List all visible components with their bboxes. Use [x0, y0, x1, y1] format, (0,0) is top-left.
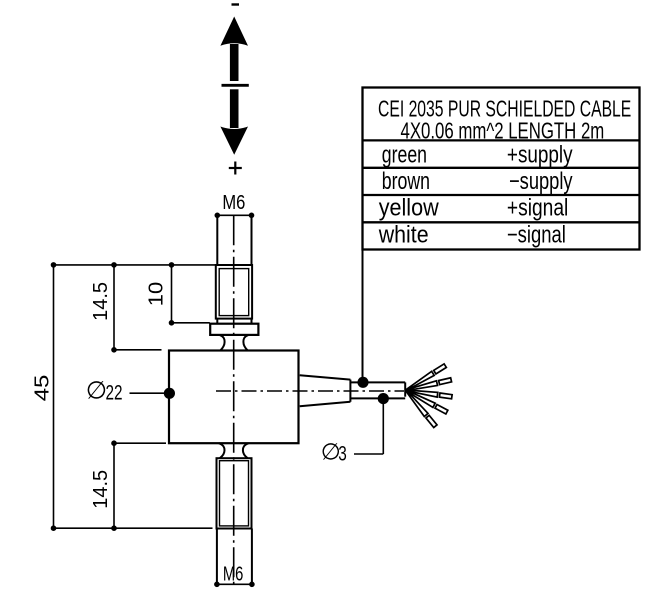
svg-text:14.5: 14.5 — [90, 470, 112, 509]
svg-text:14.5: 14.5 — [90, 282, 112, 321]
svg-text:3: 3 — [338, 441, 347, 465]
svg-text:brown: brown — [382, 169, 430, 195]
svg-text:−signal: −signal — [507, 221, 566, 248]
svg-text:white: white — [378, 220, 429, 247]
svg-text:M6: M6 — [223, 562, 243, 585]
svg-text:45: 45 — [30, 375, 53, 402]
svg-text:+supply: +supply — [507, 140, 573, 168]
svg-text:−supply: −supply — [509, 168, 573, 195]
svg-text:∅: ∅ — [86, 378, 107, 405]
svg-text:green: green — [382, 142, 427, 168]
svg-text:+signal: +signal — [507, 193, 568, 221]
svg-text:M6: M6 — [222, 190, 245, 213]
svg-text:4X0.06 mm^2 LENGTH 2m: 4X0.06 mm^2 LENGTH 2m — [401, 119, 605, 144]
svg-text:yellow: yellow — [379, 193, 439, 220]
svg-text:10: 10 — [145, 282, 167, 306]
svg-text:22: 22 — [106, 380, 123, 404]
